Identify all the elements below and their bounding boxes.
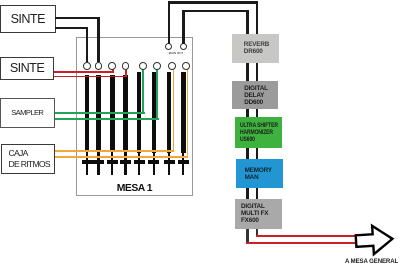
- wire red SINTE2 out2 vertical to jack 4: [125, 69, 127, 77]
- bar channel 1: [85, 75, 90, 152]
- wire black main out B horizontal top: [182, 10, 248, 12]
- main out circle B: [180, 43, 187, 50]
- fx unit REVERB DR600: [232, 34, 279, 62]
- fader stem 6: [153, 152, 155, 175]
- fx unit DIGITAL MULTI FX FX600: [235, 199, 282, 228]
- fx unit ULTRA SHIFTER HARMONIZER US600: [235, 117, 282, 147]
- wire black SINTE1 out1 vertical to jack 2: [97, 17, 99, 62]
- wire chain ultra-memory right: [256, 148, 258, 159]
- fader cross 5: [134, 160, 145, 164]
- fader cross 6: [148, 160, 159, 164]
- wire chain delay-ultra right: [256, 109, 258, 117]
- wire chain delay-ultra left: [246, 109, 248, 117]
- fader cross 4: [120, 160, 131, 164]
- wire black SINTE1 out2 horizontal: [55, 27, 88, 29]
- fader stem 8: [182, 152, 184, 175]
- wire green SAMPLER out2 vertical to jack 6: [156, 69, 158, 120]
- box SAMPLER: [0, 98, 55, 128]
- wire black main out A vertical down to reverb: [256, 1, 258, 34]
- wire red output lower horizontal: [246, 242, 356, 244]
- wire orange CAJA out2 horizontal: [55, 156, 188, 158]
- fader cross 8: [178, 160, 189, 164]
- bar channel 3: [110, 75, 115, 152]
- wire chain memory-multi right: [256, 188, 258, 199]
- wire chain ultra-memory left: [246, 148, 248, 159]
- jack circle 1: [83, 62, 91, 70]
- jack circle 3: [108, 62, 116, 70]
- wire chain reverb-delay left: [246, 63, 248, 81]
- arrow to mesa general: [348, 218, 400, 262]
- jack circle 2: [95, 62, 103, 70]
- fader stem 4: [124, 152, 126, 175]
- fader stem 5: [138, 152, 140, 175]
- bar channel 7: [167, 72, 172, 153]
- wire red SINTE2 out1 horizontal: [54, 71, 114, 73]
- wire red SINTE2 out2 horizontal: [54, 76, 127, 78]
- wire stub multi out right vertical: [256, 229, 258, 236]
- fader cross 7: [164, 160, 175, 164]
- wire black SINTE1 out1 horizontal: [55, 17, 100, 19]
- wire green SAMPLER out1 horizontal: [55, 112, 145, 114]
- bar channel 8: [181, 72, 186, 153]
- wire red output upper horizontal: [256, 235, 356, 237]
- fader cross 2: [93, 160, 104, 164]
- jack circle 6: [153, 62, 161, 70]
- wire orange CAJA out1 vertical to jack 7: [173, 69, 175, 152]
- fader stem 3: [111, 152, 113, 175]
- box SINTE 2: [0, 57, 54, 80]
- bar channel 4: [123, 75, 128, 152]
- wire red SINTE2 out1 vertical to jack 3: [112, 69, 114, 72]
- wire black main out A vertical up: [168, 1, 170, 44]
- fader stem 7: [168, 152, 170, 175]
- fader cross 3: [107, 160, 118, 164]
- wire orange CAJA out2 vertical to jack 8: [187, 69, 189, 158]
- label MAIN OUT: [162, 52, 190, 55]
- label A MESA GENERAL: [345, 258, 400, 265]
- wire black SINTE1 out2 vertical to jack 1: [86, 27, 88, 63]
- wire green SAMPLER out1 vertical to jack 5: [142, 69, 144, 114]
- fader cross 1: [82, 160, 93, 164]
- jack circle 5: [139, 62, 147, 70]
- jack circle 8: [182, 62, 190, 70]
- wire black main out B vertical down to reverb: [246, 10, 248, 34]
- bar channel 5: [137, 72, 142, 153]
- mixer MESA 1 outline: [76, 37, 194, 197]
- wire green SAMPLER out2 horizontal: [55, 118, 159, 120]
- box SINTE 1: [0, 5, 56, 34]
- fx unit DIGITAL DELAY DD600: [232, 81, 279, 109]
- bar channel 6: [152, 72, 157, 153]
- label MESA 1: [76, 183, 194, 194]
- wire black main out A horizontal top: [168, 1, 258, 3]
- jack circle 4: [122, 62, 130, 70]
- wire chain reverb-delay right: [256, 63, 258, 81]
- fader stem 1: [86, 152, 88, 175]
- box CAJA DE RITMOS: [1, 144, 56, 174]
- main out circle A: [165, 43, 172, 50]
- wire chain memory-multi left: [246, 188, 248, 199]
- wire orange CAJA out1 horizontal: [55, 150, 174, 152]
- wire black main out B vertical up: [182, 10, 184, 44]
- wire stub multi out left vertical: [246, 229, 248, 242]
- fx unit MEMORY MAN: [236, 159, 283, 188]
- jack circle 7: [168, 62, 176, 70]
- fader stem 2: [97, 152, 99, 175]
- bar channel 2: [96, 75, 101, 152]
